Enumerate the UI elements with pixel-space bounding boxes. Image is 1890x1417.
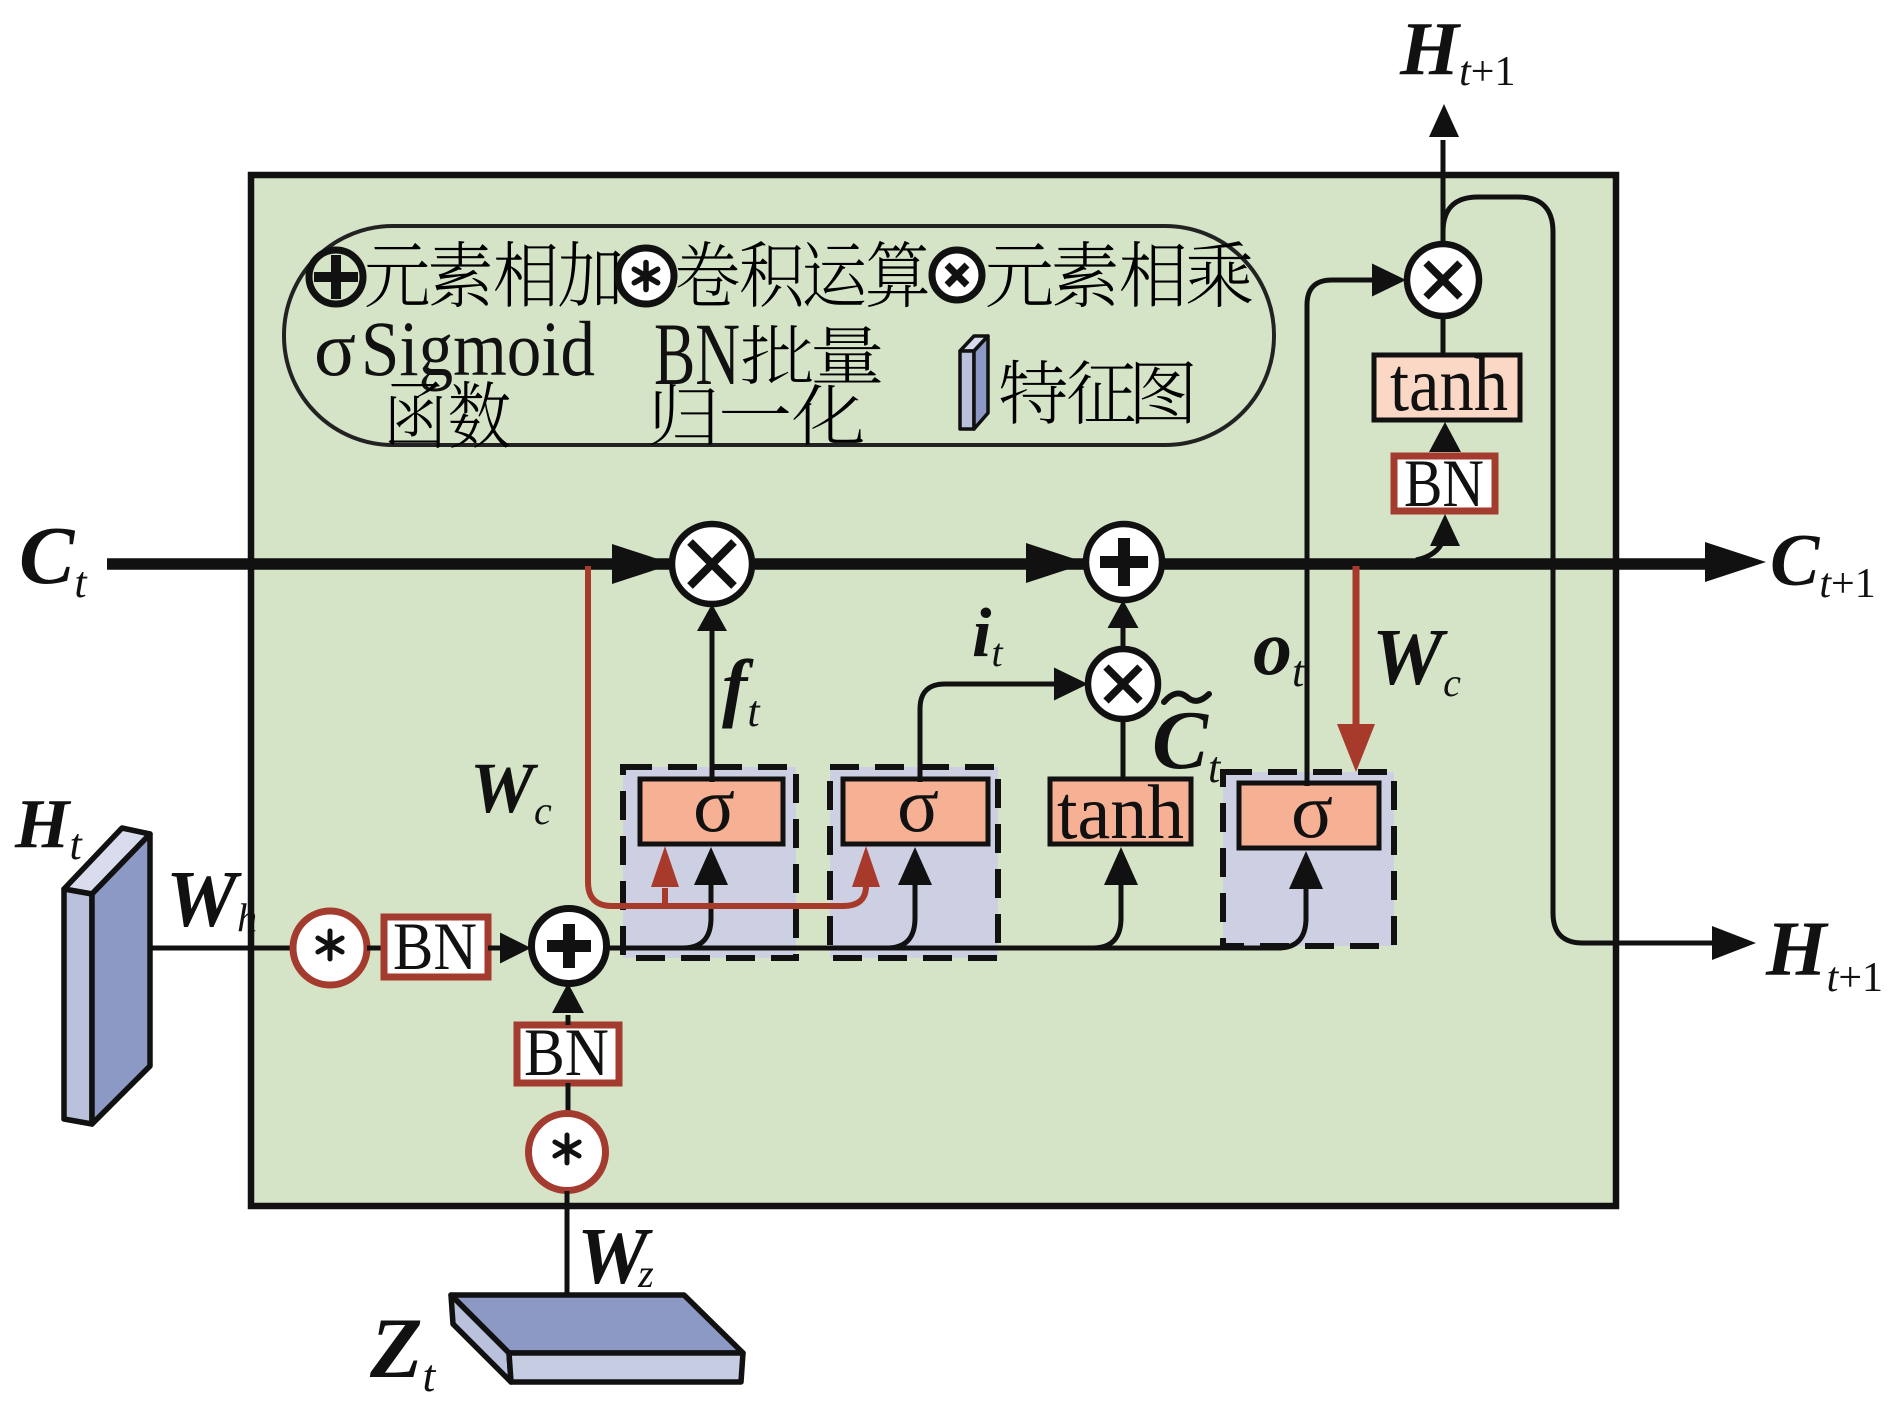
dashed wrapper box gate sigma2 — [830, 767, 998, 958]
H_t feature slab — [64, 828, 150, 1124]
Z_t feature slab — [451, 1295, 743, 1382]
wire tanh to multiply — [1441, 316, 1446, 355]
wire branch to H_t+1 right — [1443, 197, 1712, 943]
legend conv-circle symbol — [618, 248, 674, 304]
gate input elbow x=915 — [887, 883, 915, 948]
gate input elbow x=1121 — [1093, 883, 1121, 948]
gate input elbow x=711 — [683, 883, 711, 948]
red peephole wire W_c left — [588, 566, 866, 906]
svg-text:σ: σ — [314, 305, 356, 392]
BN box left — [384, 917, 488, 977]
svg-text:BN: BN — [654, 306, 740, 404]
wire o_t from sigma4 up to output multiply — [1307, 280, 1372, 784]
sigma gate 2 (input) — [843, 779, 988, 844]
wire BN2 to conv z — [566, 1083, 571, 1114]
arrowhead C_t+1 output — [1705, 542, 1766, 582]
sigma gate 1 (forget) — [640, 779, 783, 844]
add node for gate inputs — [532, 909, 607, 984]
wire multiply to H_t+1 top — [1441, 140, 1446, 244]
legend text 元素相乘 — [987, 243, 1051, 307]
arrow BN to tanh — [1429, 422, 1461, 452]
arrowhead into add node — [1026, 543, 1087, 583]
gate input elbow x=1306 — [1278, 887, 1306, 948]
BN box bottom — [517, 1025, 619, 1083]
wire multiply2 to add — [1121, 626, 1126, 649]
multiply node 2 (input) — [1088, 649, 1158, 719]
BN box top right — [1394, 456, 1495, 511]
tilde of C~_t — [1164, 693, 1209, 702]
wire conv to BN — [367, 946, 384, 951]
dashed wrapper box gate sigma1 — [623, 767, 796, 958]
arrowhead into forget multiply — [612, 544, 673, 584]
legend plus-circle symbol — [309, 250, 363, 304]
sigma gate 4 (output) — [1239, 783, 1379, 848]
conv node (star) for Z_t — [529, 1114, 606, 1191]
legend text 函数 — [389, 381, 443, 448]
red peephole wire W_c right — [1353, 566, 1360, 726]
legend text 批量 — [742, 325, 811, 384]
wire H_t to conv — [150, 946, 290, 951]
legend feature-map slab icon — [960, 336, 988, 429]
legend text 卷积运算 — [677, 241, 738, 305]
legend capsule — [284, 226, 1274, 445]
wire C line to BN — [1416, 528, 1445, 560]
multiply node on C line (forget) — [672, 524, 752, 604]
svg-text:σ: σ — [1291, 767, 1333, 854]
legend text 元素相加 — [366, 243, 428, 307]
tanh gate — [1050, 779, 1191, 844]
arrow BN2 to add — [566, 1015, 571, 1025]
svg-text:Sigmoid: Sigmoid — [361, 305, 595, 392]
wire i_t from sigma2 to multiply2 — [920, 684, 1054, 780]
wire conv z down to Z_t slab — [565, 1191, 570, 1295]
wire patches over dashed box margins — [712, 764, 1307, 786]
svg-text:BN: BN — [393, 908, 477, 984]
legend times-circle symbol — [932, 250, 982, 300]
wire C_t main horizontal line — [107, 558, 1712, 570]
LSTM cell body box — [251, 175, 1616, 1206]
add node on C line — [1086, 524, 1162, 600]
svg-text:BN: BN — [1404, 445, 1484, 521]
svg-text:BN: BN — [524, 1014, 609, 1090]
wire tanh to multiply2 — [1121, 719, 1126, 780]
tanh box top right — [1374, 355, 1520, 420]
legend text 特征图 — [1000, 360, 1066, 424]
dashed wrapper box gate sigma4 — [1223, 772, 1394, 946]
legend text 归一化 — [651, 384, 715, 445]
conv node (star) for H_t — [293, 911, 367, 985]
input bus wire from add node — [607, 946, 1281, 951]
svg-text:tanh: tanh — [1390, 341, 1508, 427]
arrow BN to add gate — [488, 946, 500, 951]
wire f_t from sigma1 to multiply — [710, 628, 715, 780]
svg-text:Wz: Wz — [577, 1213, 654, 1301]
output multiply node top right — [1407, 244, 1479, 316]
